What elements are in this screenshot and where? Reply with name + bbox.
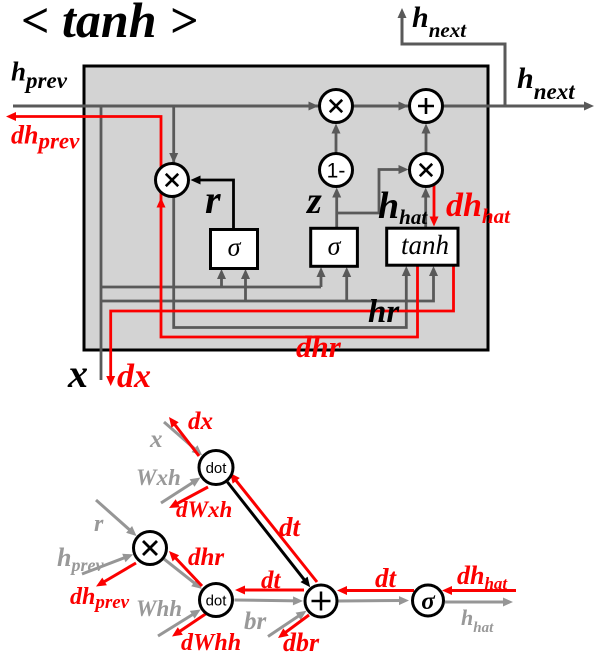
svg-text:br: br [244,608,267,635]
arrow into sigma-r right [244,274,247,301]
arrow dt plus to dot1 [233,477,317,582]
arrow x into dot1 [164,422,198,452]
wire x input and line B [101,271,434,301]
arrow dWhh out of dot2 [176,613,207,634]
svg-text:< tanh >: < tanh > [21,0,198,48]
svg-text:Wxh: Wxh [136,465,181,490]
svg-text:σ: σ [328,232,342,261]
arrow Wxh into dot1 [161,480,196,503]
arrow into sigma-z right [345,272,348,301]
svg-text:σ: σ [228,233,242,262]
svg-text:dbr: dbr [283,628,320,657]
1-minus node [320,154,353,187]
arrow h_prev into multiply node [82,556,129,574]
svg-text:1-: 1- [327,160,346,183]
arrow dbr out of plus [282,615,309,635]
arrow r into multiply node [96,500,133,533]
arrow Whh into dot2 [158,612,197,636]
arrow dhr into r-multiply [157,198,166,208]
svg-text:σ: σ [421,588,436,615]
svg-text:dhr: dhr [188,544,224,571]
dot2 node [200,584,233,617]
arrow dWxh out of dot1 [173,487,208,506]
multiply node bottom [134,532,167,565]
multiply-1 node [320,90,353,123]
plus node bottom [305,585,337,617]
svg-text:Whh: Whh [136,596,182,621]
svg-text:r: r [205,177,221,222]
svg-text:dx: dx [117,358,151,395]
wire h_next top branch [402,14,505,106]
arrow 1-minus to multiply-1 [335,128,338,154]
wire r from sigma-r to multiply [196,180,234,230]
svg-text:dx: dx [188,408,213,435]
arrow multiply-1 into plus [399,102,409,111]
arrow dhr dot2 to multiply [172,555,202,586]
wire dx red path [111,265,454,380]
arrow tanh to multiply-2 [424,192,427,228]
svg-text:dWhh: dWhh [181,630,241,656]
svg-text:z: z [305,180,322,222]
sigma-r box [211,230,258,269]
wire h_prev branch down node A [100,106,103,380]
arrow dh_prev out of multiply [100,563,136,584]
GRU cell box [84,66,488,350]
arrow sigma-z to 1-minus [335,192,338,228]
svg-text:hr: hr [368,294,400,330]
arrow plus to sigma [339,599,405,603]
svg-text:dt: dt [261,567,282,594]
arrow multiply-2 into plus [425,128,428,154]
wire h to r-multiply and hr line C [174,106,407,328]
tanh box [387,228,458,265]
svg-text:tanh: tanh [401,230,449,260]
wire dhr red path to dh_prev [12,117,418,338]
arrow dt sigma to plus [342,589,414,592]
sigma node bottom [413,585,444,616]
arrow dot2 to plus [235,599,299,603]
dot1 node [199,451,233,485]
arrow dx out of dot1 [172,421,199,456]
arrow into r-multiply top [169,153,178,163]
svg-text:x: x [67,351,88,396]
arrow dh_hat into sigma [447,589,516,592]
arrow into sigma-r left [220,274,223,287]
svg-text:r: r [94,511,104,537]
r-multiply node [156,164,189,197]
svg-text:x: x [149,426,163,453]
svg-text:dot: dot [206,593,228,610]
svg-text:dt: dt [375,563,398,593]
multiply-2 node [410,154,443,187]
wire h_prev to h_next main line [13,105,588,108]
arrow dt plus to dot2 [240,589,304,592]
svg-text:dWxh: dWxh [176,497,232,522]
arrow br into plus [268,614,302,637]
arrow dot1 to plus t [227,482,307,583]
sigma-z box [311,228,358,266]
svg-text:dhr: dhr [296,329,342,364]
wire z branch to multiply-2 [337,170,402,214]
arrow h into multiply-1 [309,102,319,111]
svg-text:dot: dot [206,460,228,477]
arrow dh_hat red [433,183,436,221]
plus node [410,90,443,123]
arrow multiply to dot2 [164,559,198,586]
svg-text:dt: dt [279,512,302,542]
arrow into sigma-z left [320,272,323,287]
arrow sigma to h_hat out [445,601,508,604]
